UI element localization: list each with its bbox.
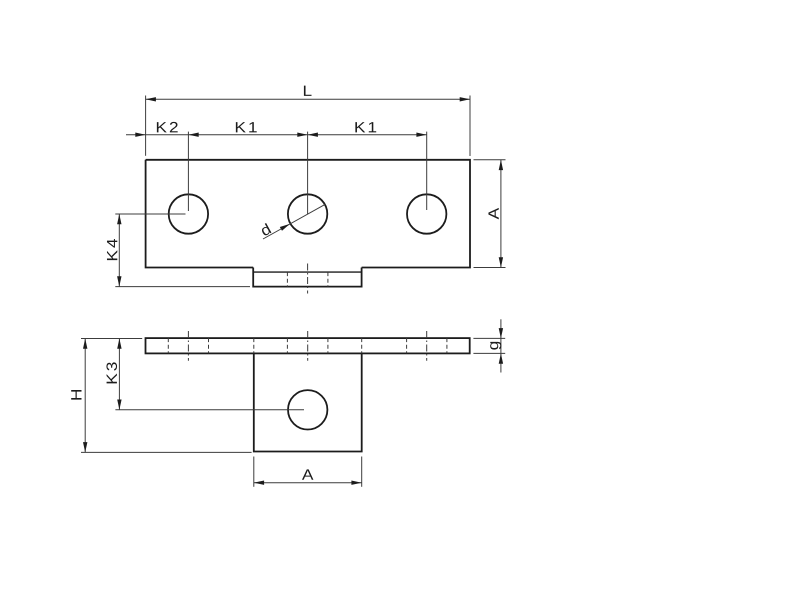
- hole 3 (top view): [407, 194, 446, 233]
- dimension L: [146, 96, 470, 157]
- label K3: [106, 362, 117, 383]
- dimension A (front view bottom): [254, 457, 362, 487]
- plate (front view): [146, 338, 470, 353]
- block (front view): [254, 354, 362, 452]
- hole 2 centerline: [307, 132, 309, 214]
- dimension K2 / K1 / K1 line: [126, 134, 427, 136]
- hole 1 (top view): [169, 194, 208, 233]
- block hole (front view): [288, 390, 327, 429]
- label H: [71, 390, 81, 400]
- plate outline (top view): [146, 160, 470, 268]
- dimension H: [81, 339, 252, 453]
- hole 1 centerline: [187, 132, 189, 211]
- hidden hole edges in plate (front view): [168, 338, 447, 353]
- label K1 (right): [355, 122, 376, 132]
- label d: [259, 223, 271, 236]
- label K4: [107, 239, 117, 260]
- label g: [490, 342, 501, 350]
- hole 2 (top view): [288, 194, 327, 233]
- label A (top view): [488, 208, 498, 219]
- dimension g: [473, 319, 505, 372]
- dimension A (top view right): [474, 160, 506, 268]
- dimension K4: [115, 214, 250, 287]
- dimension K3: [115, 339, 304, 410]
- label L: [304, 86, 312, 96]
- leader d (hole diameter): [263, 204, 326, 239]
- centerlines through plate (front view): [188, 331, 426, 361]
- label K2: [157, 122, 178, 132]
- tab centerline (top view): [307, 264, 309, 294]
- label A (front view): [302, 469, 313, 479]
- label K1 (left): [236, 122, 257, 132]
- tab hidden lines (top view): [287, 272, 328, 287]
- hole 3 centerline: [426, 132, 428, 210]
- tab (top view): [253, 268, 361, 287]
